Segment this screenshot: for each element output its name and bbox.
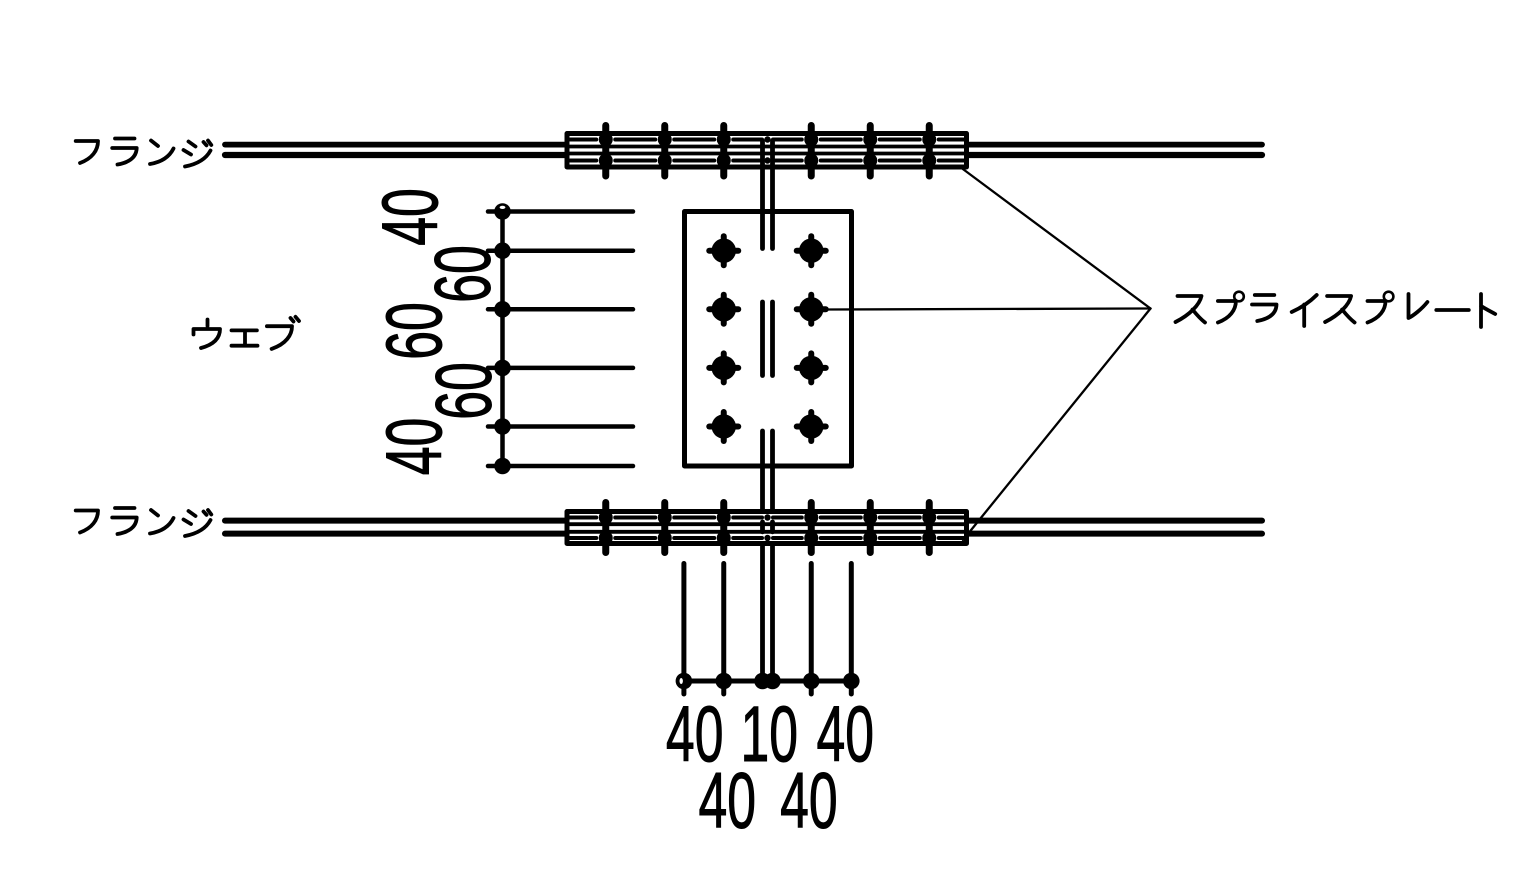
left ext line 2 — [488, 248, 633, 253]
left dim dot 2 — [494, 242, 511, 259]
bottom flange bolt heads on centerlines — [599, 511, 937, 546]
web right edge seg 1 — [770, 141, 775, 249]
top flange splice plate outline — [567, 134, 967, 168]
web bolt row 4 left — [709, 412, 738, 441]
web left edge line segments — [760, 141, 765, 681]
left ext line 5 — [488, 424, 633, 429]
bottom dim dot 3 — [754, 673, 771, 690]
top flange upper dash-dot centerline — [570, 138, 964, 142]
bottom flange bolt 6 — [926, 503, 933, 553]
bottom dim dot 6 — [843, 673, 860, 690]
bottom dimension line — [684, 679, 851, 684]
web left edge seg 3 — [760, 431, 765, 512]
svg-text:40: 40 — [699, 758, 757, 846]
top flange lower dash-dot centerline — [570, 159, 964, 163]
top flange upper line (outside splice, left) — [225, 142, 566, 148]
text フランジ (top flange label) — [76, 139, 212, 167]
bottom ext line 1 — [681, 564, 686, 695]
left dim dot 6 — [494, 458, 511, 475]
bottom flange bolt 2 — [661, 503, 668, 553]
web left edge seg 4 — [760, 522, 765, 532]
web left edge seg 2 — [760, 302, 765, 376]
web bolt row 3 right — [797, 353, 826, 382]
web bolt row 4 right — [797, 412, 826, 441]
bottom flange lower line (outside splice, left) — [225, 531, 566, 537]
bottom dim dot 2 — [715, 673, 732, 690]
leader line to bottom flange splice plate — [963, 309, 1151, 541]
web right edge line segments — [770, 141, 775, 681]
web bolt row 1 right — [797, 236, 826, 265]
bottom flange bolt 3 — [720, 503, 727, 553]
svg-text:60: 60 — [371, 302, 459, 360]
top flange plate upper edge (inside splice) — [567, 145, 967, 149]
left ext line 1 — [488, 209, 633, 214]
top flange bolt 6 — [926, 126, 933, 177]
bottom dim dot 5 — [803, 673, 820, 690]
web right edge seg 5 — [770, 544, 775, 682]
top flange bolt 2 — [661, 126, 668, 177]
bottom flange splice plate outline — [567, 512, 967, 544]
web splice bolts (8, circle with cross ticks) — [709, 236, 826, 441]
leader line to top flange splice plate — [962, 168, 1151, 309]
top flange plate lower edge (inside splice) — [567, 152, 967, 156]
text スプライスプレート (splice plate label) — [1176, 292, 1496, 327]
left ext line 6 — [488, 464, 633, 469]
web left edge seg 1 — [760, 141, 765, 249]
top flange upper line (outside splice, right) — [968, 142, 1263, 148]
top flange bolts (6 vertical) — [606, 126, 930, 177]
bottom dim dot 1 (open) — [676, 673, 693, 690]
web right edge seg 4 — [770, 522, 775, 532]
top flange lower line (outside splice, left) — [225, 152, 566, 158]
left dim dot 3 — [494, 301, 511, 318]
bottom flange plate upper edge (inside splice) — [567, 522, 967, 526]
web bolt row 1 left — [709, 236, 738, 265]
bottom flange bolt 1 — [602, 503, 609, 553]
left ext line 3 — [488, 307, 633, 312]
svg-text:40: 40 — [371, 418, 459, 476]
svg-text:40: 40 — [367, 188, 455, 246]
top flange bolt 1 — [602, 126, 609, 177]
left dimension extension lines — [488, 212, 633, 467]
bottom flange bolts (6 vertical) — [606, 503, 930, 553]
web bolt row 3 left — [709, 353, 738, 382]
web left edge seg 5 — [760, 544, 765, 682]
svg-text:60: 60 — [421, 362, 509, 420]
bottom dimension extension lines — [684, 564, 851, 695]
bottom flange lower dash-dot centerline — [570, 536, 964, 540]
left dimension vertical line — [500, 212, 505, 467]
svg-text:60: 60 — [420, 245, 508, 303]
top flange bolt 3 — [720, 126, 727, 177]
web right edge seg 2 — [770, 302, 775, 376]
bottom ext line 4 — [849, 564, 854, 695]
bottom flange upper dash-dot centerline — [570, 516, 964, 520]
web splice plate outline — [685, 212, 852, 467]
left dim dot 1 (open) — [494, 203, 511, 220]
web bolt row 2 left — [709, 295, 738, 324]
bottom ext line 2 — [721, 564, 726, 695]
bottom ext line 3 — [809, 564, 814, 695]
bottom flange upper line (outside splice, right) — [968, 518, 1263, 524]
leader line to web splice plate — [826, 309, 1151, 310]
top flange bolt heads on centerlines — [599, 133, 937, 168]
dimension digit labels (left, rotated) — [367, 188, 874, 845]
text ウェブ (web label) — [194, 317, 300, 349]
left dim dot 4 — [494, 360, 511, 377]
text フランジ (bottom flange label) — [76, 508, 212, 536]
svg-text:40: 40 — [780, 758, 838, 846]
bottom flange plate lower edge (inside splice) — [567, 530, 967, 534]
bottom flange lower line (outside splice, right) — [968, 531, 1263, 537]
bottom flange bolt 4 — [808, 503, 815, 553]
top flange lower line (outside splice, right) — [968, 152, 1263, 158]
web right edge seg 3 — [770, 431, 775, 512]
top flange bolt 5 — [867, 126, 874, 177]
bottom flange bolt 5 — [867, 503, 874, 553]
top flange bolt 4 — [808, 126, 815, 177]
bottom flange upper line (outside splice, left) — [225, 518, 566, 524]
left ext line 4 — [488, 366, 633, 371]
left dim dot 5 — [494, 418, 511, 435]
bottom dim dot 4 — [764, 673, 781, 690]
web bolt row 2 right — [797, 295, 826, 324]
